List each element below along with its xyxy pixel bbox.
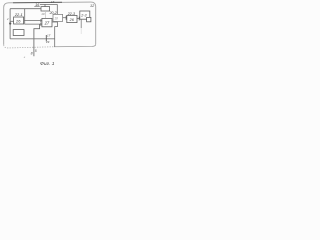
- empty block lower left: [13, 30, 24, 36]
- input tick 2 block 27: [40, 23, 42, 26]
- wire 20-2 to 22-3 box: [63, 17, 67, 19]
- block middle right 26 box: [67, 15, 77, 22]
- svg-text:17: 17: [51, 0, 55, 4]
- input tick 1 block 27: [40, 19, 42, 22]
- horizontal bottom bus: [10, 38, 55, 40]
- outer border bottom dotted edge: [4, 45, 54, 48]
- svg-text:26: 26: [69, 18, 75, 22]
- svg-text:5: 5: [35, 49, 37, 53]
- block 16 box: [41, 7, 50, 11]
- svg-text:22-1: 22-1: [14, 12, 23, 17]
- svg-text:12: 12: [90, 4, 95, 8]
- svg-text:27: 27: [44, 21, 50, 26]
- svg-text:18: 18: [54, 17, 58, 21]
- outer border bottom right solid edge: [54, 44, 96, 47]
- input tick right box: [78, 17, 80, 21]
- wire top rail: [40, 3, 57, 5]
- wire rail down to block 20-2: [56, 4, 58, 14]
- block 20-2 box: [53, 14, 63, 21]
- faint wire continuation: [80, 28, 82, 34]
- svg-text:2-3: 2-3: [80, 13, 86, 17]
- svg-text:16: 16: [35, 3, 40, 7]
- outer border darker top segment: [13, 1, 62, 3]
- wire from rail down right of box 22-1 to lower input: [25, 9, 42, 24]
- wire upper horizontal to block 16: [10, 8, 41, 10]
- block 2-3 box: [80, 11, 90, 19]
- wire output tap down to terminal: [34, 24, 40, 56]
- wire to right box: [77, 18, 80, 20]
- block 27 box: [42, 18, 52, 26]
- wire box 26 output to block 27: [24, 20, 42, 22]
- wire block 27 output right and down: [52, 22, 57, 47]
- faint wire block 16 down to block 27: [45, 11, 47, 18]
- outer enclosure border (dash-dot frame): [4, 2, 96, 45]
- junction dot on left bus: [9, 22, 11, 24]
- wire drop to block 16: [44, 4, 46, 6]
- small attached square: [87, 17, 91, 21]
- svg-text:2: 2: [6, 17, 9, 21]
- svg-text:26: 26: [15, 19, 21, 24]
- wire tick into left 26 box: [10, 20, 14, 22]
- svg-text:Фиг. 1: Фиг. 1: [40, 61, 55, 67]
- block 26 left box: [14, 17, 24, 24]
- label 16 underline: [34, 6, 40, 8]
- element tick on bus: [45, 35, 47, 42]
- svg-text:в: в: [24, 55, 26, 59]
- svg-text:17: 17: [47, 33, 51, 37]
- svg-text:10: 10: [41, 12, 45, 16]
- svg-text:8: 8: [31, 51, 33, 55]
- svg-text:29: 29: [45, 40, 50, 44]
- input tick mid box: [65, 16, 67, 20]
- wire down from right box: [80, 19, 82, 28]
- wire left vertical bus: [9, 9, 11, 39]
